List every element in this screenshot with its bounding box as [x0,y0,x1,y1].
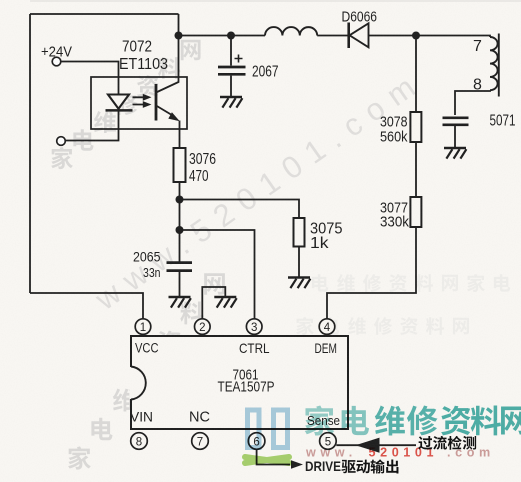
arrow DRIVE [291,460,303,469]
pin 2 [195,319,211,335]
node A junction [175,32,183,40]
wire A-B [179,35,232,37]
ground for 2067 [220,97,242,108]
wire DRIVE output from pin6 [257,449,290,464]
label 过流检测 [418,436,476,450]
wire diode to node C [369,35,417,37]
pin 8 [131,433,148,450]
wire D to 3075 [180,200,300,219]
wire 3077 to DEM pin4 [327,227,416,319]
wire +24V feed [61,62,119,95]
wire top outer [30,13,179,15]
wire E to CTRL pin3 [180,230,255,319]
pin 7 [192,433,209,450]
pin 5 [320,433,337,450]
watermark url [305,446,495,460]
optocoupler 7072 ET1103 [91,39,187,130]
wire D-E [179,200,181,231]
capacitor snubber [443,118,469,148]
wire inductor to diode [317,35,348,37]
capacitor 2065 33n [133,230,192,297]
resistor 3077 330k [380,197,421,231]
wire overcurrent sense into pin5 [336,444,416,446]
node C junction [412,32,420,40]
resistor 3075 1k [294,218,343,252]
wire B to inductor [231,35,265,37]
node E junction [176,226,184,234]
pin 1 [135,319,151,335]
resistor 3076 470 [174,148,217,185]
transformer winding 5071 [473,34,516,130]
node B junction [227,32,235,40]
ground for pin2 [214,297,236,308]
wire 3075 to ground [298,247,300,278]
wire LED cathode to terminal [66,110,119,140]
wire pin2 to ground [202,287,225,319]
ground for snubber cap [444,148,466,159]
wire pin8 to cap [455,90,490,115]
wire C down [415,36,417,113]
wire left outer vertical [29,14,31,293]
label DRIVE 驱动输出 [305,458,398,474]
ground for 3075 [288,278,310,289]
diode D6066 [342,10,378,49]
pin 4 [319,319,335,335]
watermark teal site name [305,405,521,435]
IC U7061 TEA1507P [129,336,348,429]
pin 3 [246,319,262,335]
wire C to transformer pin 7 [416,36,490,38]
watermark logo book [248,410,288,448]
wire bottom-left to VCC [30,293,143,319]
wire 3076 to node D [179,182,181,200]
node D junction [176,196,184,204]
watermark green ribbon [245,457,289,463]
wire collector to top node [178,14,180,77]
wire 3078-3077 [415,142,417,197]
arrow into pin5 [356,438,380,453]
ground for 2065 [169,297,191,308]
terminal +24V [52,57,61,66]
inductor L [265,27,317,35]
pin 6 [248,433,265,450]
resistor 3078 560k [380,112,421,146]
capacitor 2067 [218,36,279,98]
terminal opto return [57,137,66,146]
wire emitter to 3076 [179,121,181,149]
